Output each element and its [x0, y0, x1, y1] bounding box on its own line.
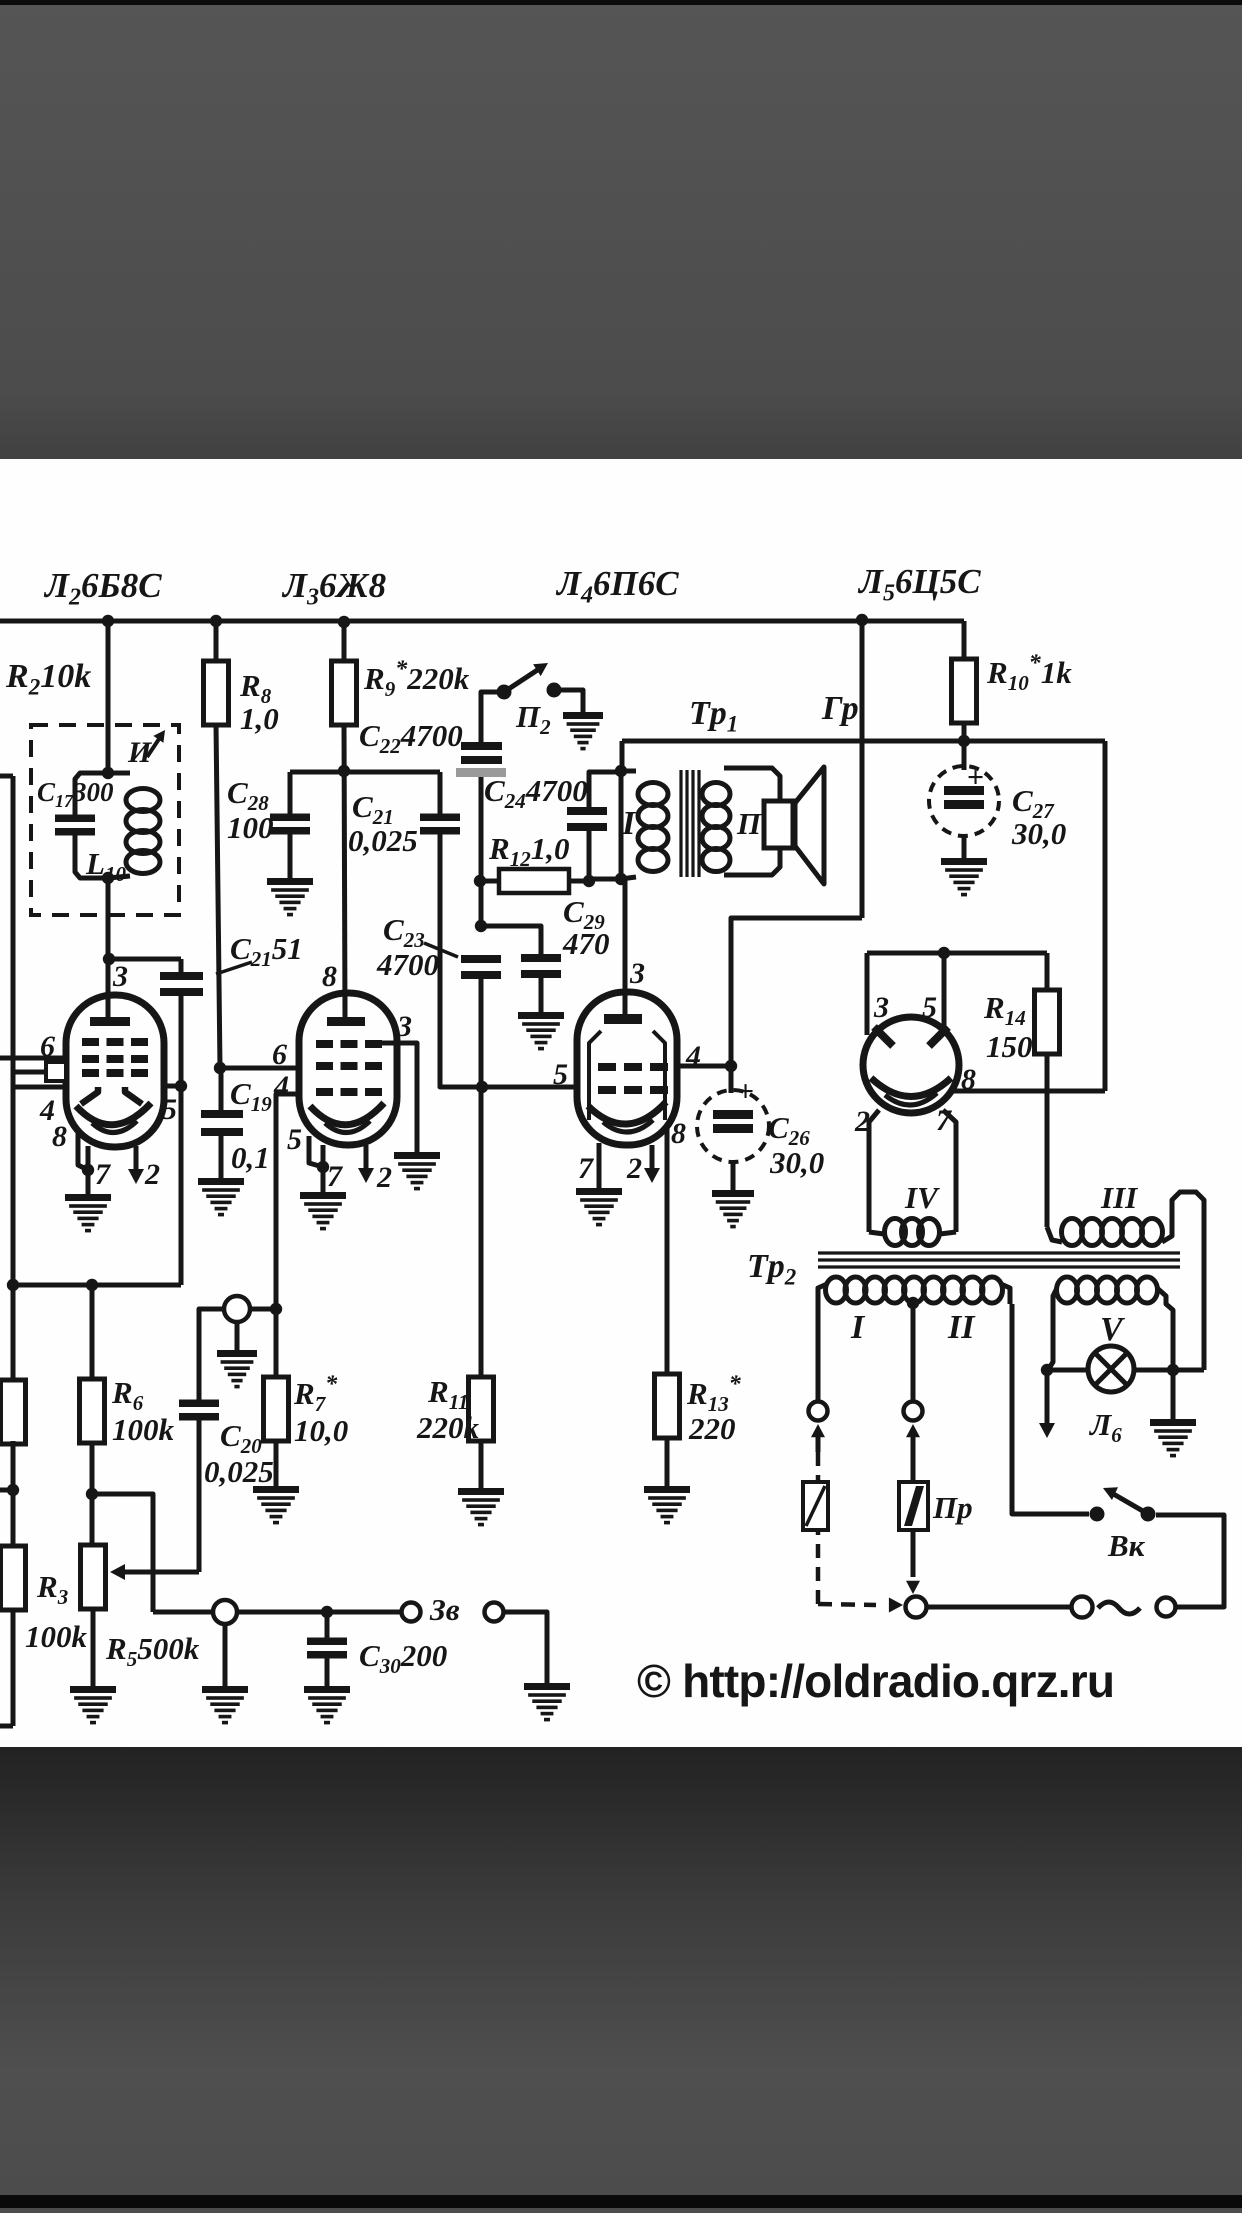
- svg-text:R5500k: R5500k: [105, 1631, 200, 1671]
- svg-text:100k: 100k: [112, 1412, 175, 1447]
- svg-text:+: +: [737, 1075, 754, 1108]
- svg-text:2: 2: [626, 1152, 642, 1185]
- svg-text:R9*220k: R9*220k: [363, 657, 470, 701]
- svg-text:6: 6: [40, 1030, 55, 1063]
- svg-text:III: III: [1100, 1180, 1138, 1215]
- svg-text:30,0: 30,0: [1011, 816, 1066, 851]
- svg-text:4700: 4700: [376, 947, 439, 982]
- svg-text:IV: IV: [904, 1180, 940, 1215]
- svg-text:C224700: C224700: [359, 718, 463, 758]
- svg-text:I: I: [850, 1309, 866, 1346]
- svg-text:I: I: [621, 805, 637, 842]
- svg-text:R210k: R210k: [5, 658, 91, 700]
- svg-text:Зв: Зв: [429, 1592, 460, 1627]
- svg-text:Л36Ж8: Л36Ж8: [281, 566, 386, 611]
- svg-text:5: 5: [162, 1093, 177, 1126]
- svg-text:6: 6: [272, 1038, 287, 1071]
- svg-text:2: 2: [376, 1161, 392, 1194]
- svg-text:3: 3: [629, 957, 645, 990]
- svg-text:470: 470: [562, 926, 610, 961]
- svg-text:5: 5: [287, 1123, 302, 1156]
- svg-text:10,0: 10,0: [294, 1413, 348, 1448]
- svg-text:100: 100: [227, 810, 274, 845]
- svg-text:8: 8: [52, 1120, 67, 1153]
- svg-text:0,1: 0,1: [231, 1140, 270, 1175]
- svg-text:0,025: 0,025: [348, 823, 418, 858]
- svg-text:V: V: [1100, 1311, 1125, 1348]
- svg-text:5: 5: [553, 1058, 568, 1091]
- svg-text:Пр: Пр: [932, 1490, 973, 1525]
- svg-text:1,0: 1,0: [240, 701, 279, 736]
- svg-text:П: П: [736, 806, 762, 841]
- svg-text:8: 8: [322, 960, 337, 993]
- svg-text:3: 3: [873, 991, 889, 1024]
- svg-text:3: 3: [112, 960, 128, 993]
- svg-text:C30200: C30200: [359, 1638, 447, 1678]
- svg-text:Гр: Гр: [821, 690, 859, 727]
- svg-text:C244700: C244700: [484, 773, 588, 813]
- svg-text:Вк: Вк: [1107, 1528, 1146, 1563]
- svg-text:Л26Б8С: Л26Б8С: [43, 566, 162, 611]
- svg-text:II: II: [947, 1309, 976, 1346]
- svg-text:© http://oldradio.qrz.ru: © http://oldradio.qrz.ru: [637, 1655, 1114, 1707]
- svg-text:220: 220: [688, 1411, 736, 1446]
- svg-text:3: 3: [396, 1010, 412, 1043]
- svg-text:8: 8: [671, 1117, 686, 1150]
- svg-text:100k: 100k: [25, 1619, 88, 1654]
- svg-text:+: +: [967, 761, 984, 794]
- svg-text:0,025: 0,025: [204, 1454, 274, 1489]
- svg-text:7: 7: [578, 1152, 594, 1185]
- svg-text:C17300: C17300: [37, 777, 114, 811]
- svg-text:220k: 220k: [416, 1410, 480, 1445]
- svg-text:Л56Ц5С: Л56Ц5С: [857, 562, 981, 607]
- svg-text:150: 150: [986, 1029, 1033, 1064]
- svg-text:2: 2: [144, 1158, 160, 1191]
- svg-text:5: 5: [922, 991, 937, 1024]
- svg-text:7: 7: [327, 1160, 343, 1193]
- svg-text:Л46П6С: Л46П6С: [555, 564, 679, 609]
- svg-text:30,0: 30,0: [769, 1145, 824, 1180]
- svg-text:7: 7: [95, 1158, 111, 1191]
